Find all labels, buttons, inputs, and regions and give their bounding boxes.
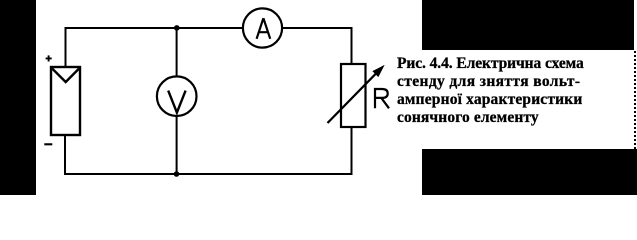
caption text <box>397 55 612 127</box>
wire resistor bottom to bottom rail <box>351 127 353 175</box>
label plus <box>46 55 52 61</box>
black sidebar left <box>0 0 36 195</box>
voltmeter letter V <box>168 91 185 113</box>
node junction bottom <box>174 171 180 177</box>
label R <box>374 88 389 108</box>
resistor arrow shaft <box>328 73 378 124</box>
wire middle vertical through voltmeter <box>176 28 178 174</box>
wire left vertical to cell <box>65 27 67 67</box>
wire right vertical to resistor <box>351 27 353 64</box>
black block bottom-right <box>422 149 637 195</box>
ammeter A1 circle <box>243 8 282 47</box>
solar cell G1 body <box>51 67 80 135</box>
resistor arrow head <box>373 66 383 76</box>
resistor R body <box>341 64 366 127</box>
solar cell chevron <box>52 68 79 82</box>
wire cell bottom to bottom rail <box>64 135 66 175</box>
voltmeter V1 circle <box>157 76 197 116</box>
wire bottom horizontal rail <box>64 173 353 175</box>
ammeter letter A <box>257 18 271 39</box>
label minus <box>44 143 52 145</box>
black block top-right <box>422 0 634 50</box>
wire top horizontal <box>65 27 353 29</box>
node junction top <box>174 25 180 31</box>
dotted border of caption box <box>634 51 636 149</box>
